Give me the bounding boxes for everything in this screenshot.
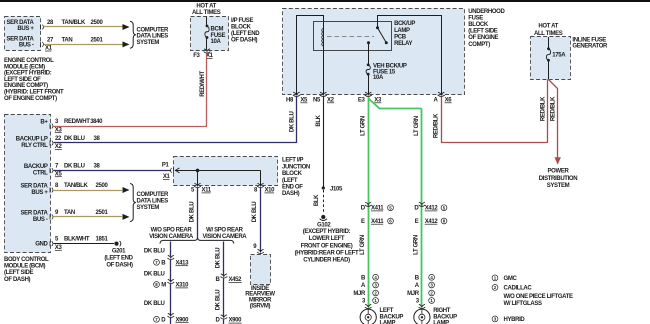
svg-text:(HYBRID:REAR OF LEFT: (HYBRID:REAR OF LEFT — [295, 251, 359, 257]
svg-text:3840: 3840 — [90, 119, 103, 125]
svg-text:SER DATA: SER DATA — [21, 183, 49, 189]
svg-text:BLK: BLK — [316, 114, 322, 126]
svg-text:DK BLU: DK BLU — [144, 301, 165, 307]
svg-text:OF DASH): OF DASH) — [106, 262, 133, 268]
svg-text:DISTRIBUTION: DISTRIBUTION — [539, 176, 577, 182]
svg-text:UNDERHOOD: UNDERHOOD — [468, 9, 505, 15]
svg-text:RED/BLK: RED/BLK — [550, 96, 556, 121]
svg-text:RLY CTRL: RLY CTRL — [21, 143, 48, 149]
svg-text:22: 22 — [55, 136, 62, 142]
svg-text:DK BLU: DK BLU — [289, 112, 295, 133]
svg-text:DK BLU: DK BLU — [144, 272, 165, 278]
svg-text:BUS +: BUS + — [31, 190, 48, 196]
svg-text:GMC: GMC — [504, 276, 518, 282]
svg-text:VISION CAMERA: VISION CAMERA — [203, 234, 248, 240]
svg-text:ENGINE COMPT): ENGINE COMPT) — [4, 83, 48, 89]
svg-text:FUSE: FUSE — [468, 15, 483, 21]
svg-text:OF ENGINE COMPT): OF ENGINE COMPT) — [4, 96, 57, 102]
svg-text:OF ENGINE: OF ENGINE — [468, 35, 498, 41]
svg-text:BACKUP: BACKUP — [433, 314, 457, 320]
svg-text:RED/WHT: RED/WHT — [64, 119, 90, 125]
svg-text:DK BLU: DK BLU — [64, 136, 85, 142]
svg-text:MJR: MJR — [407, 291, 420, 297]
svg-text:BLK/WHT: BLK/WHT — [64, 237, 90, 243]
svg-text:E: E — [415, 219, 419, 225]
svg-text:LEFT I/P: LEFT I/P — [282, 158, 304, 164]
svg-text:(LEFT SIDE: (LEFT SIDE — [468, 29, 498, 35]
svg-text:LAMP: LAMP — [394, 28, 410, 34]
svg-text:COMPT): COMPT) — [468, 42, 490, 48]
svg-text:DK BLU: DK BLU — [215, 290, 221, 311]
svg-text:LT GRN: LT GRN — [360, 235, 366, 255]
svg-text:LAMP: LAMP — [433, 320, 449, 324]
svg-text:BUS -: BUS - — [19, 43, 34, 49]
svg-text:SYSTEM: SYSTEM — [137, 205, 160, 211]
svg-text:DK BLU: DK BLU — [190, 202, 196, 223]
svg-text:LEFT: LEFT — [380, 308, 394, 314]
svg-text:H8: H8 — [286, 97, 294, 103]
svg-text:(LEFT END: (LEFT END — [231, 31, 260, 37]
svg-text:JUNCTION: JUNCTION — [282, 164, 310, 170]
svg-text:COMPUTER: COMPUTER — [137, 27, 170, 33]
svg-text:BUS -: BUS - — [33, 217, 48, 223]
svg-text:HOT AT: HOT AT — [538, 24, 558, 30]
svg-text:BLOCK: BLOCK — [468, 22, 489, 28]
svg-text:BUS +: BUS + — [17, 26, 34, 32]
svg-text:BCM: BCM — [211, 27, 224, 33]
svg-text:RED/BLK: RED/BLK — [433, 113, 439, 138]
svg-text:E3: E3 — [358, 97, 366, 103]
svg-text:LT GRN: LT GRN — [361, 116, 367, 136]
svg-text:BLK: BLK — [314, 194, 320, 206]
svg-text:(HYBRID: LEFT FRONT: (HYBRID: LEFT FRONT — [4, 90, 64, 96]
svg-text:ENGINE CONTROL: ENGINE CONTROL — [4, 58, 54, 64]
svg-text:BACKUP: BACKUP — [24, 164, 48, 170]
svg-text:LT GRN: LT GRN — [414, 116, 420, 136]
svg-text:(LEFT: (LEFT — [282, 178, 298, 184]
svg-text:38: 38 — [94, 163, 101, 169]
svg-text:TAN/BLK: TAN/BLK — [62, 20, 86, 26]
svg-text:CTRL: CTRL — [33, 170, 48, 176]
svg-text:(LEFT END: (LEFT END — [104, 256, 133, 262]
svg-text:2500: 2500 — [91, 20, 104, 26]
svg-text:DK BLU: DK BLU — [252, 202, 258, 223]
svg-text:OF DASH): OF DASH) — [4, 277, 31, 283]
svg-text:M: M — [161, 283, 166, 289]
svg-text:RED/WHT: RED/WHT — [200, 71, 206, 97]
svg-text:(EXCEPT HYBRID:: (EXCEPT HYBRID: — [4, 71, 52, 77]
svg-text:RELAY: RELAY — [394, 41, 412, 47]
svg-text:CYLINDER HEAD): CYLINDER HEAD) — [303, 258, 350, 264]
svg-text:DK BLU: DK BLU — [215, 248, 221, 269]
svg-text:RED/BLK: RED/BLK — [540, 96, 546, 121]
svg-text:DATA LINES: DATA LINES — [137, 34, 169, 40]
svg-text:RIGHT: RIGHT — [433, 308, 451, 314]
svg-text:W/ LIFTGLASS: W/ LIFTGLASS — [504, 301, 542, 307]
svg-text:FUSE: FUSE — [211, 33, 226, 39]
svg-text:W/O ONE PIECE LIFTGATE: W/O ONE PIECE LIFTGATE — [504, 294, 574, 300]
svg-text:10A: 10A — [211, 39, 222, 45]
svg-text:CADILLAC: CADILLAC — [504, 286, 533, 292]
svg-text:BLOCK: BLOCK — [282, 171, 303, 177]
svg-text:PCB: PCB — [394, 34, 407, 40]
svg-text:I/P FUSE: I/P FUSE — [231, 18, 253, 24]
svg-text:LEFT SIDE OF: LEFT SIDE OF — [4, 77, 41, 83]
svg-text:BLOCK: BLOCK — [231, 25, 252, 31]
svg-text:28: 28 — [47, 20, 54, 26]
svg-text:BACKUP LP: BACKUP LP — [16, 136, 48, 142]
svg-text:(ISRVM): (ISRVM) — [250, 304, 271, 310]
svg-text:FRONT OF ENGINE): FRONT OF ENGINE) — [301, 243, 353, 249]
svg-text:N5: N5 — [313, 97, 321, 103]
svg-text:GND: GND — [35, 242, 48, 248]
svg-text:DASH): DASH) — [282, 191, 300, 197]
svg-text:F3: F3 — [193, 53, 200, 59]
svg-text:HYBRID: HYBRID — [504, 317, 526, 323]
svg-text:END OF: END OF — [282, 185, 303, 191]
svg-text:2501: 2501 — [91, 37, 104, 43]
svg-text:2501: 2501 — [96, 210, 109, 216]
svg-text:B+: B+ — [40, 120, 48, 126]
svg-text:ALL TIMES: ALL TIMES — [192, 10, 221, 16]
svg-text:DK BLU: DK BLU — [64, 163, 85, 169]
svg-text:SYSTEM: SYSTEM — [547, 183, 570, 189]
svg-text:TAN: TAN — [62, 37, 73, 43]
svg-text:POWER: POWER — [548, 169, 570, 175]
svg-text:27: 27 — [47, 37, 54, 43]
svg-text:2500: 2500 — [96, 183, 109, 189]
svg-text:P1: P1 — [162, 162, 170, 168]
svg-text:G201: G201 — [112, 249, 126, 255]
svg-text:BODY CONTROL: BODY CONTROL — [4, 257, 49, 263]
svg-text:LOWER LEFT: LOWER LEFT — [309, 236, 345, 242]
svg-text:VISION CAMERA: VISION CAMERA — [149, 234, 194, 240]
svg-text:LT GRN: LT GRN — [414, 235, 420, 255]
svg-text:G102: G102 — [317, 223, 331, 229]
svg-text:DK BLU: DK BLU — [144, 249, 165, 255]
svg-text:10A: 10A — [373, 75, 384, 81]
svg-text:E: E — [361, 219, 365, 225]
svg-text:DATA LINES: DATA LINES — [137, 199, 169, 205]
svg-text:SYSTEM: SYSTEM — [137, 40, 160, 46]
svg-text:TAN: TAN — [64, 210, 75, 216]
svg-text:(EXCEPT HYBRID:: (EXCEPT HYBRID: — [303, 229, 351, 235]
svg-text:SER DATA: SER DATA — [21, 210, 49, 216]
svg-text:1851: 1851 — [96, 237, 109, 243]
svg-text:HOT AT: HOT AT — [196, 3, 216, 9]
svg-text:INLINE FUSE: INLINE FUSE — [572, 37, 606, 43]
svg-text:OF DASH): OF DASH) — [231, 37, 258, 43]
svg-text:W/ SPO REAR: W/ SPO REAR — [206, 228, 244, 234]
svg-text:175A: 175A — [552, 53, 566, 59]
svg-text:W/O SPO REAR: W/O SPO REAR — [151, 228, 193, 234]
svg-text:LAMP: LAMP — [380, 320, 396, 324]
svg-text:GENERATOR: GENERATOR — [572, 44, 608, 50]
svg-text:MODULE (ECM): MODULE (ECM) — [4, 64, 45, 70]
svg-text:MJR: MJR — [353, 291, 366, 297]
svg-text:(LEFT SIDE: (LEFT SIDE — [4, 270, 34, 276]
svg-text:BACKUP: BACKUP — [380, 314, 404, 320]
svg-text:J105: J105 — [330, 187, 343, 193]
svg-text:BCK/UP: BCK/UP — [394, 21, 415, 27]
svg-text:COMPUTER: COMPUTER — [137, 192, 170, 198]
svg-text:MODULE (BCM): MODULE (BCM) — [4, 264, 45, 270]
svg-text:TAN/BLK: TAN/BLK — [64, 183, 88, 189]
svg-text:38: 38 — [94, 136, 101, 142]
